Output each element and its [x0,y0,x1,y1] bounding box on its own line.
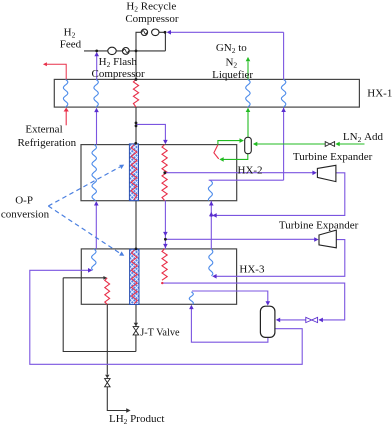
wire: turbine expander 2 exhaust [213,240,344,277]
wire: product line to LH2 outlet [107,387,127,411]
wire: J-T valve to collector [135,335,137,352]
turbine expander 1 symbol [317,165,336,181]
wire: LN2 thermosiphon return [218,141,241,145]
svg-text:HX-2: HX-2 [238,165,263,177]
wire: product line down [106,304,108,374]
turbine expander 2 symbol [319,230,336,248]
wire: turbine expander 2 feed [165,238,314,240]
svg-text:O-P: O-P [15,195,33,207]
wire: recycle riser below HX-1 [283,108,285,181]
svg-text:J-T Valve: J-T Valve [140,328,180,339]
O-P catalyst column in HX-2 [129,144,138,201]
node: cold feed tap upper [135,122,138,125]
svg-text:HX-3: HX-3 [239,263,265,275]
wire: return between HX-3 and HX-2 [95,205,97,249]
svg-text:LH2 Product: LH2 Product [109,413,164,426]
node: turbine 2 feed tap [164,238,167,241]
coil: HX-2 LN2 thermosiphon (red) [214,145,219,159]
svg-text:Compressor: Compressor [125,13,179,25]
valve: J-T valve [134,323,138,327]
coil: HX-1 external refrigeration (blue) [63,79,67,107]
annotation arrow to HX-2 catalyst [48,167,120,206]
wire: external refrigeration inlet [65,111,67,125]
coil: HX-3 separator thermosiphon (blue) [189,292,193,305]
node: cold feed tap lower [135,125,138,128]
annotation arrow to HX-3 catalyst [48,206,120,253]
coil: HX-3 recycle return (blue) [92,249,96,270]
coil: HX-3 product reflux (red) [105,278,110,304]
wire: GN2 to liquefier [247,61,249,79]
heat exchanger HX-1 box [54,79,359,107]
coil: HX-2 recycle return (blue) [92,145,96,201]
svg-text:Turbine Expander: Turbine Expander [279,219,359,231]
node: turbine 1 feed tap [163,171,166,174]
wire: GN2 vessel to HX-1 [247,111,249,137]
wire: separator bottom thermosiphon [191,308,268,342]
node: HX-2 catalyst top [134,142,137,145]
coil: HX-2 turbine stream (blue) [208,180,212,200]
svg-text:Compressor: Compressor [92,68,146,80]
wire: valve to separator inlet [277,319,306,321]
coil: HX-1 recycle vapour (blue) [281,79,285,107]
O-P catalyst column in HX-3 [130,249,139,304]
wire: HX-3 coil to separator top [192,291,268,302]
heat exchanger HX-2 box [81,145,237,201]
node: feed/recycle-vapour junction [95,50,98,53]
node: HX-1 top crossing [135,78,138,81]
svg-text:HX-1: HX-1 [367,87,392,99]
wire: recycle riser above HX-1 [283,32,285,79]
svg-text:External: External [25,124,62,136]
wire: recycle compressor outlet [136,32,141,51]
vessel: LN2 phase separator [245,137,252,153]
svg-text:Refrigeration: Refrigeration [17,137,76,149]
wire: turbine stream between HX-2 and HX-3 [210,201,212,249]
node: feed/compressor junction [135,50,138,53]
compressor circle: H2 flash stage 1 (plain) [108,47,116,54]
svg-text:H2: H2 [64,27,76,40]
wire: LN2 valve to vessel [254,143,325,145]
wire: HX-3 feed tap to separator valve [162,283,344,320]
wire: recycle to HX-2 turbine coil [209,179,284,181]
wire: H2 feed line [84,50,165,52]
heat exchanger HX-3 box [81,249,236,304]
coil: HX-1 GN2 (blue) [246,79,250,107]
node: HX-3 tap corner [161,282,163,284]
wire: main drop into HX-1 [135,51,137,80]
wire: HX-3 to J-T valve [135,304,137,326]
wire: cold feed tap to HX-2 [136,124,165,141]
svg-text:N2: N2 [225,56,237,69]
node: recycle suction junction [164,31,167,34]
wire: feed between HX-2 and HX-3 [164,201,166,249]
svg-text:LN2 Add: LN2 Add [343,131,384,144]
wire: recycle vapour to feed junction [96,53,98,79]
wire: feed riser to recycle loop [159,32,166,51]
coil: HX-3 feed (red) [162,249,167,280]
wire: external refrigeration outlet [46,64,66,79]
wire: spur to HX-3 red coil [63,277,104,279]
coil: HX-1 recycle return (blue) [94,79,98,107]
compressor circle: H2 recycle stage 1 (wave) [141,29,147,35]
coil: HX-2 warm feed (red) [162,145,167,201]
svg-text:Turbine Expander: Turbine Expander [293,151,373,163]
vessel: LH2 flash separator [260,306,275,337]
svg-text:GN2 to: GN2 to [216,42,247,55]
node: turbine 1 exhaust junction [210,214,213,217]
wire: turbine expander 1 exhaust [214,173,345,216]
svg-text:conversion: conversion [1,208,50,220]
svg-text:H2 Recycle: H2 Recycle [126,0,176,13]
wire: turbine expander 1 feed [165,172,313,174]
wire: recycle suction line to compressor [168,31,283,33]
coil: HX-1 main feed (red) [133,79,138,107]
wire: LN2 add line [337,143,365,145]
valve: LN2 add [325,142,330,147]
compressor circle: H2 flash stage 2 (wave) [122,48,129,55]
valve: separator inlet (purple) [306,317,312,322]
coil: HX-3 turbine stream (blue) [209,249,213,276]
svg-text:Feed: Feed [60,39,82,51]
svg-text:Liquefier: Liquefier [212,69,253,81]
wire: collector header [63,278,136,352]
compressor circle: H2 recycle stage 2 (plain) [152,29,159,36]
valve: product letdown [105,379,111,383]
wire: recycle between HX-1 and HX-2 [96,112,98,145]
wire: separator vapour return [30,270,302,364]
wire: LN2 vessel bottom to coil [222,154,248,160]
node: HX-3 catalyst top [135,248,138,251]
wire: HX-1 to HX-2 [135,107,137,145]
wire: HX-2 to HX-3 [135,201,137,249]
